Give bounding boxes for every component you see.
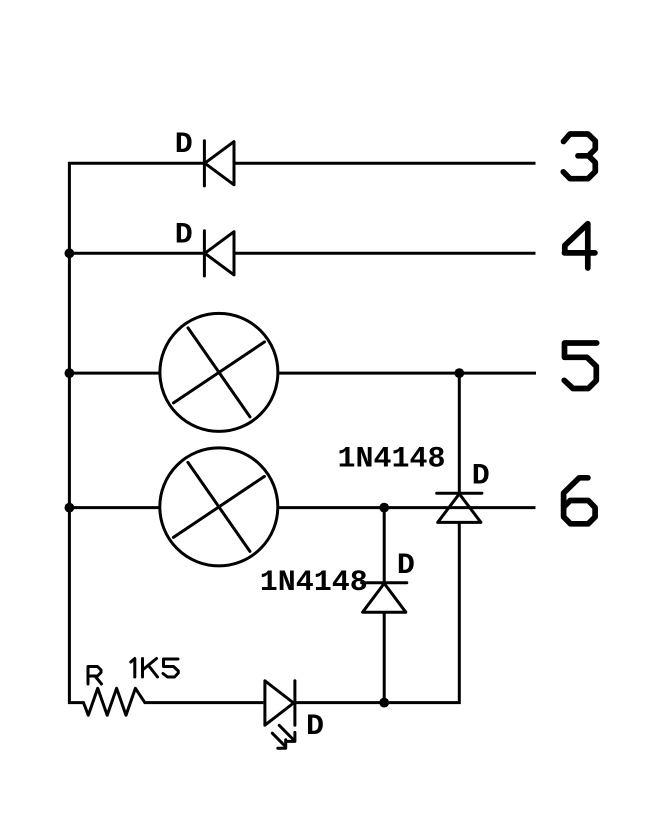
wire [383, 612, 386, 702]
lamp LA2 (wire 6) [160, 448, 278, 566]
pin 6 [564, 478, 596, 524]
diode D 1N4148 (lower) [362, 583, 407, 612]
svg-text:1N4148: 1N4148 [338, 443, 446, 477]
label R [88, 667, 102, 685]
wire [458, 373, 461, 493]
svg-text:D: D [175, 128, 193, 162]
node on wire 6 at bus [65, 503, 75, 513]
svg-text:D: D [175, 218, 193, 252]
wire [69, 372, 161, 375]
wire [296, 701, 384, 704]
wire [145, 701, 264, 704]
wire [278, 506, 536, 509]
wire [234, 252, 536, 255]
diode D (wire 4) [204, 231, 234, 276]
node on wire 6 [379, 503, 389, 513]
wire [383, 508, 386, 583]
node on wire 4 at bus [65, 248, 75, 258]
LED D (bottom) [265, 681, 295, 749]
wire [69, 506, 161, 509]
svg-text:D: D [472, 460, 490, 494]
diode D (wire 3) [204, 141, 234, 186]
lamp LA1 (wire 5) [160, 313, 278, 431]
resistor R1 1K5 [84, 688, 145, 715]
wire [69, 163, 204, 702]
wire [69, 252, 204, 255]
label 1K5 [131, 659, 179, 678]
pin 4 [565, 224, 595, 268]
node on bottom wire [379, 698, 389, 708]
node on wire 5 at bus [65, 368, 75, 378]
pin 5 [564, 343, 597, 389]
node on wire 5 right [454, 368, 464, 378]
svg-text:D: D [306, 710, 324, 744]
svg-text:1N4148: 1N4148 [260, 566, 368, 600]
svg-text:D: D [397, 549, 415, 583]
wire [278, 372, 537, 375]
wire [384, 522, 459, 702]
wire [234, 162, 536, 165]
diode D 1N4148 (upper, on wire 6) [437, 493, 482, 522]
pin 3 [563, 134, 595, 179]
